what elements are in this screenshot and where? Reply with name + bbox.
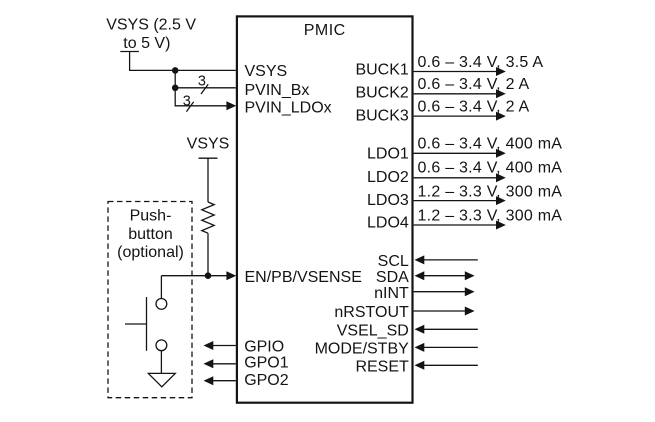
label VSYS (2.5 V to 5 V) [106,16,196,52]
svg-text:LDO4: LDO4 [367,215,409,232]
svg-text:1.2 – 3.3 V, 300 mA: 1.2 – 3.3 V, 300 mA [418,207,563,224]
svg-text:BUCK3: BUCK3 [355,107,408,124]
svg-text:PVIN_LDOx: PVIN_LDOx [245,99,332,116]
svg-text:LDO1: LDO1 [367,146,409,163]
ground [148,373,175,386]
wire LDO3 output [414,196,506,205]
svg-text:0.6 – 3.4 V, 400 mA: 0.6 – 3.4 V, 400 mA [418,135,563,152]
svg-text:Push-: Push- [130,208,172,225]
svg-text:GPIO: GPIO [244,339,284,356]
svg-text:BUCK1: BUCK1 [355,62,408,79]
supply rail VSYS (2.5 V to 5 V) [120,51,139,53]
svg-text:3: 3 [183,94,191,110]
svg-text:VSYS: VSYS [245,63,288,80]
resistor R1 pull-up [202,202,214,233]
wire RESET input [415,361,478,370]
svg-text:LDO2: LDO2 [367,169,409,186]
junction node PVIN [172,85,179,92]
PMIC block U1 [237,16,413,402]
svg-text:SCL: SCL [378,253,409,270]
svg-text:nINT: nINT [374,285,409,302]
svg-text:button: button [128,226,172,243]
bus slash PVIN_LDOx [186,102,193,112]
svg-text:GPO2: GPO2 [244,372,289,389]
push-button enclosure (dashed, optional) [108,202,192,398]
svg-text:0.6 – 3.4 V, 400 mA: 0.6 – 3.4 V, 400 mA [418,159,563,176]
svg-text:nRSTOUT: nRSTOUT [334,304,409,321]
svg-text:0.6 – 3.4 V, 2 A: 0.6 – 3.4 V, 2 A [418,76,530,93]
wire GPIO output [204,341,236,350]
svg-text:(optional): (optional) [117,244,184,261]
wire EN/PB/VSENSE [161,271,236,280]
arrowhead into PVIN_LDOx [226,101,236,110]
label Push-button (optional) [117,208,184,261]
svg-text:VSEL_SD: VSEL_SD [337,323,409,340]
svg-text:LDO3: LDO3 [367,192,409,209]
wire push-button to ground [160,351,162,374]
wire GPO1 output [204,359,236,368]
supply rail VSYS (pull-up) [199,158,218,202]
svg-text:MODE/STBY: MODE/STBY [315,340,410,357]
wire PVIN_Bx [175,87,236,89]
wire nINT output [414,287,475,296]
wire LDO4 output [414,221,506,230]
wire SCL input [415,255,478,264]
wire SDA bidirectional [415,271,475,280]
svg-text:SDA: SDA [376,269,409,286]
svg-text:BUCK2: BUCK2 [355,85,408,102]
wire BUCK1 output [414,67,506,76]
svg-text:0.6 – 3.4 V, 2 A: 0.6 – 3.4 V, 2 A [418,98,530,115]
wire resistor to node EN [207,233,209,276]
wire LDO1 output [414,149,506,158]
svg-text:GPO1: GPO1 [244,355,289,372]
wire VSYS input [130,52,236,71]
svg-text:VSYS (2.5 V: VSYS (2.5 V [106,16,196,33]
wire nRSTOUT output [414,307,475,316]
wire LDO2 output [414,173,506,182]
svg-text:3: 3 [198,73,206,89]
svg-text:PMIC: PMIC [304,22,346,39]
svg-text:VSYS: VSYS [187,136,230,153]
wire BUCK2 output [414,89,506,98]
wire MODE/STBY input [415,343,478,352]
wire EN node to push-button [160,276,162,299]
svg-text:RESET: RESET [355,359,409,376]
wire GPO2 output [204,376,236,385]
junction node EN [205,272,212,279]
wire VSEL_SD input [415,325,478,334]
svg-text:EN/PB/VSENSE: EN/PB/VSENSE [245,269,362,286]
svg-text:to 5 V): to 5 V) [123,35,170,52]
svg-text:PVIN_Bx: PVIN_Bx [245,82,310,99]
bus slash PVIN_Bx [201,84,208,94]
svg-text:1.2 – 3.3 V, 300 mA: 1.2 – 3.3 V, 300 mA [418,183,563,200]
push-button S1 [125,297,167,351]
svg-text:0.6 – 3.4 V, 3.5 A: 0.6 – 3.4 V, 3.5 A [418,54,544,71]
wire BUCK3 output [414,112,506,121]
junction node VSYS [172,67,179,74]
wire PVIN_LDOx [175,88,227,106]
wire junction drop 1 [174,70,176,87]
